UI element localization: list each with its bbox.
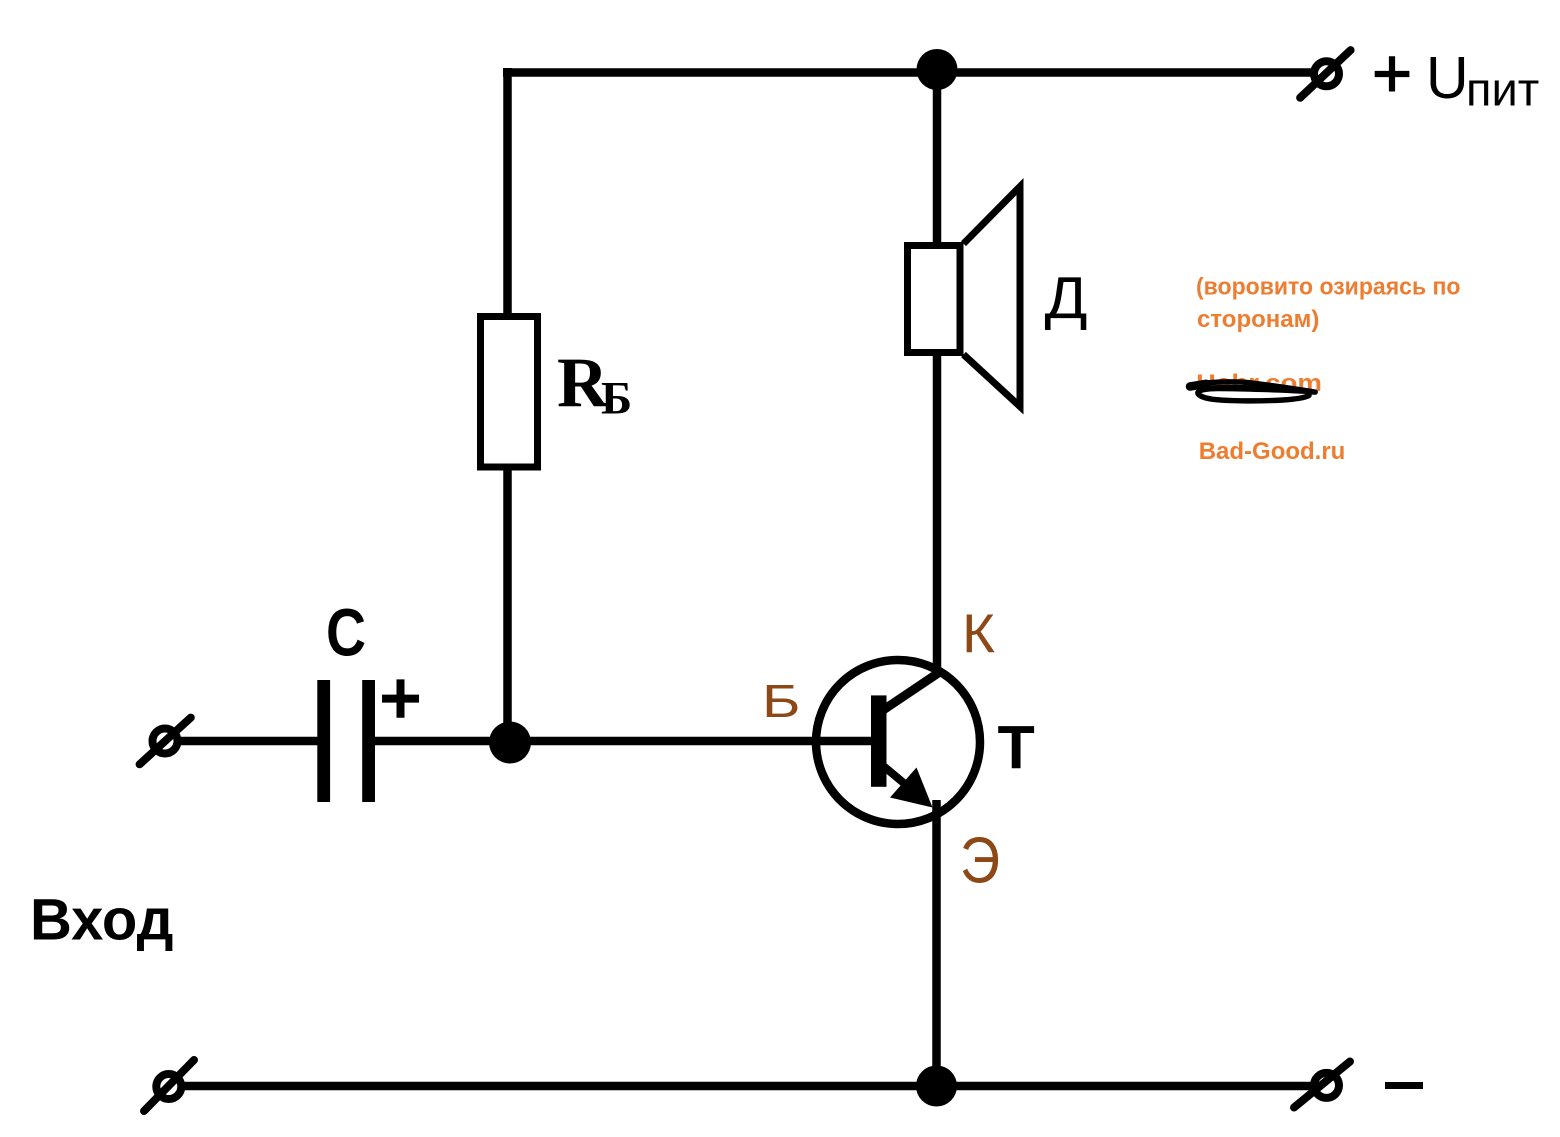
svg-text:U: U bbox=[1426, 45, 1469, 111]
svg-text:Вход: Вход bbox=[30, 888, 173, 953]
svg-text:Б: Б bbox=[601, 373, 632, 425]
svg-text:Т: Т bbox=[998, 714, 1035, 782]
svg-text:Д: Д bbox=[1045, 265, 1088, 331]
svg-text:сторонам): сторонам) bbox=[1197, 306, 1319, 333]
svg-text:К: К bbox=[962, 603, 995, 665]
svg-text:Б: Б bbox=[762, 675, 801, 727]
svg-text:пит: пит bbox=[1466, 63, 1539, 116]
svg-text:(воровито озираясь по: (воровито озираясь по bbox=[1196, 274, 1461, 301]
svg-text:С: С bbox=[326, 596, 366, 671]
svg-text:Bad-Good.ru: Bad-Good.ru bbox=[1199, 438, 1346, 465]
svg-text:Э: Э bbox=[960, 825, 1000, 897]
